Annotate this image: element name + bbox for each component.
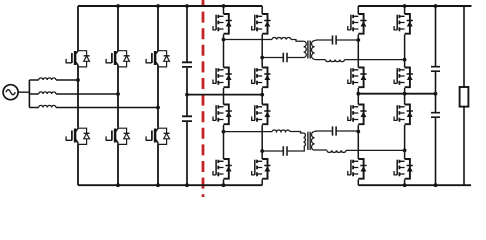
node mid rail leg4 — [403, 92, 407, 96]
resonant inductor Lr2 — [272, 130, 290, 132]
MOSFET S3 — [252, 14, 271, 34]
secondary inductor Ls2 — [327, 150, 346, 152]
node cap top rail — [185, 4, 189, 8]
resonant capacitor Cr1 — [283, 53, 287, 63]
resonant capacitor Cr2 — [283, 146, 287, 156]
middle rail left section — [187, 94, 262, 96]
MOSFET S11 — [394, 14, 413, 34]
DC link capacitor Cd1 — [182, 62, 192, 67]
MOSFET S5 — [213, 105, 232, 125]
AC source Vin — [3, 85, 18, 100]
node mid rail leg3 — [356, 92, 360, 96]
IGBT leg 1 wire — [77, 6, 79, 185]
bottom rail right section — [358, 184, 471, 186]
middle rail right section — [358, 93, 436, 95]
tank1 secondary top wire — [315, 39, 359, 42]
output capacitor Co1 — [431, 67, 440, 72]
IGBT Q2 — [66, 128, 90, 144]
IGBT Q4 — [106, 128, 130, 144]
load resistor RL — [460, 87, 469, 107]
transformer T2 primary winding — [304, 133, 306, 147]
wire source to bus — [18, 92, 29, 94]
MOSFET S8 — [252, 159, 271, 179]
output capacitor Co2 — [431, 113, 440, 118]
node top rail leg4 — [403, 4, 407, 8]
bridge B leg 2 wire — [404, 6, 406, 94]
node bridgeB mid2 — [403, 58, 407, 62]
node bridgeC mid2 — [260, 149, 264, 153]
node bridgeD mid2 — [403, 149, 407, 153]
IGBT Q3 — [106, 51, 130, 67]
MOSFET S15 — [394, 105, 413, 125]
bridge B leg 1 wire — [357, 6, 359, 94]
node leg2-phase — [116, 92, 120, 96]
input bus — [28, 80, 30, 108]
bridge A leg 1 wire — [223, 6, 225, 95]
node bridgeD mid1 — [356, 130, 360, 134]
bridge D leg 2 wire — [404, 94, 406, 186]
node leg1-phase — [76, 78, 80, 82]
MOSFET S13 — [348, 105, 367, 125]
MOSFET S7 — [252, 105, 271, 125]
IGBT leg 2 wire — [117, 6, 119, 185]
bridge C leg 1 wire — [223, 95, 225, 185]
MOSFET S9 — [348, 14, 367, 34]
wire branch 1 — [29, 79, 78, 81]
bridge A leg 2 wire — [261, 6, 263, 95]
MOSFET S4 — [252, 68, 271, 88]
node bottom rail leg3 — [156, 183, 160, 187]
node bridgeA mid2 — [260, 56, 264, 60]
resonant inductor Lr1 — [272, 37, 291, 39]
DC link capacitor column wire — [186, 6, 188, 185]
top rail right section — [358, 5, 471, 7]
node out cap top — [434, 4, 438, 8]
node out cap bottom — [434, 183, 438, 187]
node bridgeA mid1 — [222, 38, 226, 42]
IGBT leg 3 wire — [157, 6, 159, 185]
resonant capacitor Cs1 — [333, 35, 337, 44]
node bridgeC mid1 — [222, 130, 226, 134]
MOSFET S10 — [348, 68, 367, 88]
node top rail leg2 — [116, 4, 120, 8]
tank2 secondary bottom wire — [315, 149, 405, 151]
input inductor Lb — [39, 92, 56, 94]
IGBT Q5 — [146, 51, 170, 67]
MOSFET S16 — [394, 159, 413, 179]
wire branch 2 — [29, 93, 118, 95]
node leg3-phase — [156, 106, 160, 110]
node bridgeB mid1 — [356, 38, 360, 42]
top rail left section — [78, 5, 262, 7]
DC link capacitor Cd2 — [182, 116, 192, 121]
node cap mid rail — [185, 93, 189, 97]
bridge D leg 1 wire — [357, 94, 359, 186]
node bridgeA drain1 — [222, 4, 226, 8]
MOSFET S6 — [213, 159, 232, 179]
node bridgeA source2 — [222, 183, 226, 187]
output capacitor column wire — [435, 6, 437, 185]
tank1 secondary bottom wire — [315, 59, 405, 61]
IGBT Q6 — [146, 128, 170, 144]
transformer T1 secondary winding — [312, 41, 315, 60]
IGBT Q1 — [66, 51, 90, 67]
tank2 bottom wire — [262, 146, 304, 151]
red dashed separation line — [202, 0, 205, 197]
transformer T1 primary winding — [304, 41, 307, 57]
MOSFET S2 — [213, 68, 232, 88]
node out cap mid — [434, 92, 438, 96]
secondary inductor Ls1 — [326, 60, 345, 62]
input inductor Lc — [39, 105, 56, 107]
input inductor La — [39, 78, 56, 80]
node bottom rail leg4 — [403, 183, 407, 187]
bottom rail left section — [78, 184, 262, 186]
node cap bottom rail — [185, 183, 189, 187]
transformer T2 core — [308, 132, 310, 150]
MOSFET S12 — [394, 68, 413, 88]
MOSFET S14 — [348, 159, 367, 179]
bridge C leg 2 wire — [261, 95, 263, 186]
transformer T2 secondary winding — [312, 132, 315, 151]
MOSFET S1 — [213, 14, 232, 34]
tank1 top wire — [224, 40, 304, 42]
resonant capacitor Cs2 — [333, 126, 337, 135]
load column wire — [463, 6, 465, 185]
tank2 top wire — [224, 132, 304, 134]
node mid rail end — [260, 93, 264, 97]
transformer T1 core — [308, 41, 310, 59]
tank2 secondary top wire — [315, 130, 359, 133]
node bottom rail leg2 — [116, 183, 120, 187]
wire branch 3 — [29, 107, 158, 109]
tank1 bottom wire — [262, 57, 303, 59]
node top rail leg3 — [156, 4, 160, 8]
